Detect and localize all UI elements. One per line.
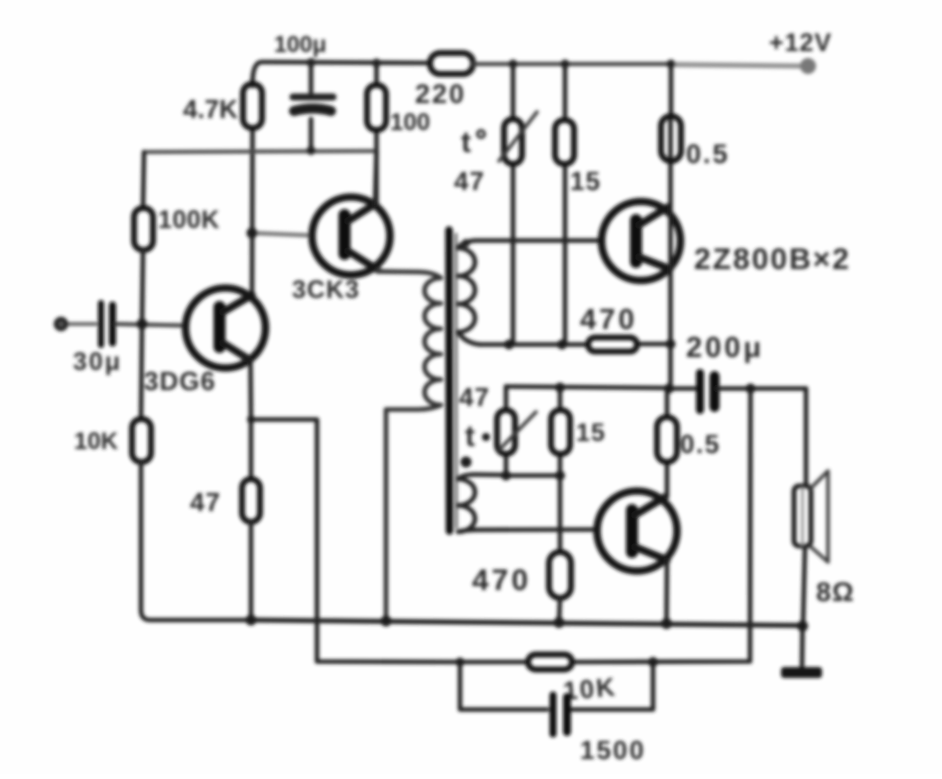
transformer T1 lower secondary winding [458, 475, 597, 532]
svg-text:t: t [465, 420, 475, 453]
node junction bias to emitter [666, 339, 676, 349]
node rail junction at 0.5 resistor branch [667, 60, 676, 69]
node phase dot lower winding [461, 457, 472, 468]
svg-text:t: t [461, 126, 471, 159]
node phase dot upper winding [462, 239, 470, 247]
wire feedback lower horizontal [460, 389, 751, 663]
wire Q2 collector to 100 resistor [375, 151, 377, 205]
node junction 470 lower bottom [554, 617, 565, 628]
resistor R8 0.5 upper with leads [668, 64, 673, 269]
wire lower bias node [506, 473, 560, 478]
node junction 100u bottom [307, 146, 316, 155]
svg-text:470: 470 [472, 564, 531, 597]
node junction feedback left [456, 658, 465, 667]
svg-text:3CK3: 3CK3 [292, 276, 360, 304]
svg-text:100: 100 [390, 109, 430, 136]
wire output node horizontal to cap [506, 387, 695, 389]
node junction 47 bottom [246, 615, 257, 626]
resistor R2 4.7K with leads [250, 80, 255, 296]
wire Q2 emitter to transformer primary (faded) [378, 271, 421, 272]
node rail junction at thermistor branch [509, 60, 518, 69]
wire output to speaker [804, 389, 809, 487]
transistor Q1 3DG6 [186, 288, 266, 368]
svg-text:8Ω: 8Ω [816, 577, 855, 607]
svg-text:2Z800B×2: 2Z800B×2 [694, 243, 851, 276]
svg-text:3DG6: 3DG6 [144, 366, 216, 396]
resistor R11 0.5 lower with leads [665, 389, 670, 498]
transformer T1 upper secondary winding [458, 241, 602, 345]
thermistor RT1 47 upper with leads [511, 64, 516, 344]
wire top supply rail right segment [473, 62, 672, 66]
wire feedback cap branch [460, 662, 653, 710]
wire 100K branch vertical top [143, 152, 144, 208]
resistor R10 470 lower [549, 552, 571, 598]
wire rail to +12V terminal (faded) [672, 65, 800, 67]
wire upper bias node horizontal [480, 342, 671, 347]
resistor R4 10K [132, 419, 151, 462]
svg-text:0.5: 0.5 [680, 429, 721, 459]
resistor R9 15 lower with leads [558, 388, 563, 553]
node junction 15 bottom [557, 340, 567, 350]
thermistor RT2 47 lower with leads [504, 387, 509, 476]
svg-text:4.7K: 4.7K [183, 94, 238, 124]
wire feedback from emitter node [251, 420, 460, 663]
node base junction of Q1 [137, 319, 148, 330]
node junction primary bottom [381, 616, 392, 627]
node junction feedback right [648, 657, 658, 667]
speaker LS1 [794, 486, 811, 546]
capacitor C5 1500 feedback [550, 695, 557, 734]
node rail junction at 100 resistor [372, 59, 381, 68]
node junction 15 top lower [555, 383, 565, 393]
svg-text:10K: 10K [74, 428, 119, 455]
wire top supply rail left segment [253, 62, 431, 84]
svg-text:47: 47 [190, 487, 221, 517]
svg-text:15: 15 [576, 419, 606, 447]
wire Q4 emitter to ground rail [664, 560, 669, 623]
wire Q3 emitter down to output node [668, 269, 673, 389]
svg-text:+12V: +12V [769, 29, 832, 57]
node junction speaker ground [797, 621, 808, 632]
transistor Q3 output upper [602, 202, 681, 281]
capacitor C1 30u input coupling [98, 303, 104, 345]
resistor R12 10K feedback [528, 655, 572, 670]
node rail junction at 100u cap [307, 58, 316, 67]
node collector junction [247, 228, 258, 239]
node rail junction at 15 resistor branch [561, 60, 570, 69]
svg-text:200μ: 200μ [686, 332, 764, 364]
svg-text:470: 470 [580, 304, 637, 336]
wire bottom ground rail [251, 620, 803, 626]
resistor R5 47 emitter [242, 479, 260, 522]
node junction emitter feedback corner [247, 416, 255, 424]
svg-text:100μ: 100μ [274, 31, 326, 57]
capacitor C2 100u electrolytic [309, 63, 314, 151]
svg-text:220: 220 [415, 79, 466, 109]
node output junction [664, 384, 674, 394]
svg-text:47: 47 [459, 382, 490, 412]
svg-text:0.5: 0.5 [686, 139, 730, 169]
svg-text:30μ: 30μ [73, 348, 122, 376]
node junction feedback takeoff [746, 384, 756, 394]
resistor R1 100K [134, 208, 153, 250]
transformer T1 primary winding [378, 272, 441, 622]
node +12V terminal [800, 58, 816, 74]
node junction thermistor bottom [504, 340, 514, 350]
wire filtered node horizontal [144, 151, 376, 152]
svg-text:47: 47 [454, 166, 485, 196]
wire input to coupling cap [67, 322, 96, 326]
wire base of Q2 [252, 233, 313, 236]
node junction Q4 emitter [661, 618, 672, 629]
svg-text:100K: 100K [158, 206, 220, 234]
transformer T1 core [445, 230, 453, 531]
capacitor C4 200u output [696, 373, 704, 410]
node junction lower bias [555, 471, 565, 481]
resistor 220 (series in rail) [430, 53, 473, 74]
ground [800, 626, 805, 668]
svg-text:15: 15 [570, 166, 601, 196]
svg-text:1500: 1500 [580, 735, 646, 765]
wire Q1 emitter down [248, 360, 253, 479]
transistor Q4 output lower [597, 491, 677, 571]
node junction trimmer bottom lower [501, 471, 511, 481]
node input terminal [56, 319, 66, 329]
wire base node down to 10K [141, 324, 142, 419]
resistor R3 100 with leads [374, 63, 379, 205]
transistor Q2 3CK3 [312, 197, 390, 275]
resistor R7 470 upper [588, 338, 637, 352]
resistor R6 15 upper with leads [563, 64, 568, 344]
